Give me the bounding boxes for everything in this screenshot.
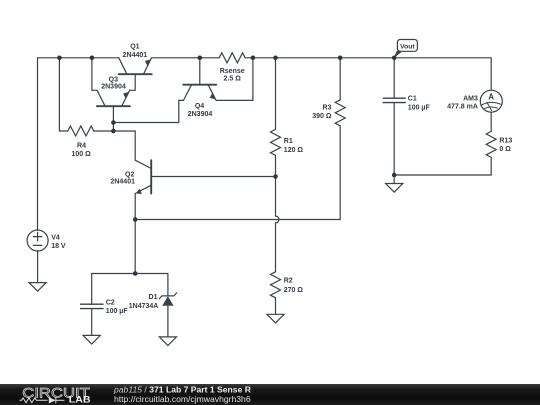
wire Q2 emitter down (134, 194, 136, 274)
svg-text:C2: C2 (106, 299, 115, 306)
svg-text:D1: D1 (149, 294, 158, 301)
ground for C2 (83, 335, 100, 344)
junction Q3 base / R4 right (111, 129, 116, 134)
svg-text:2N3904: 2N3904 (101, 83, 126, 90)
wire left column to V4 (37, 58, 39, 231)
wire Q4 emitter to rail after Rsense (216, 58, 253, 101)
junction Q3 base / Q4 collector (111, 120, 116, 125)
resistor Rsense (219, 53, 245, 63)
svg-text:100 µF: 100 µF (106, 308, 129, 315)
capacitor C2 (81, 274, 103, 336)
svg-text:Rsense: Rsense (220, 68, 245, 75)
resistor R1 (271, 58, 281, 216)
svg-text:R13: R13 (499, 138, 512, 145)
transistor Q1 (119, 58, 152, 91)
ground for R2 (267, 314, 284, 323)
svg-text:100 µF: 100 µF (408, 104, 431, 111)
svg-text:pab115 / 371 Lab 7 Part 1 Sens: pab115 / 371 Lab 7 Part 1 Sense R (113, 384, 252, 394)
capacitor C1 (383, 58, 405, 175)
svg-text:1N4734A: 1N4734A (129, 303, 159, 310)
wire branch to R4 (59, 58, 67, 131)
wire bottom right row (394, 174, 491, 176)
wire top rail left segment (38, 57, 119, 59)
svg-text:C1: C1 (408, 96, 417, 103)
wire C2 D1 row (92, 273, 168, 275)
junction rail / Q3 collector (90, 56, 95, 61)
junction rail / Q4 base (198, 56, 203, 61)
svg-text:18 V: 18 V (51, 243, 66, 250)
svg-text:Q2: Q2 (125, 171, 134, 178)
zener diode D1 (159, 274, 176, 337)
svg-text:LAB: LAB (69, 395, 91, 405)
ground for D1 (159, 337, 176, 346)
svg-text:R1: R1 (284, 138, 293, 145)
wire R4 right to node (94, 131, 135, 160)
junction C1 bottom / ground (392, 173, 397, 178)
resistor R4 (68, 126, 94, 136)
resistor R2 (271, 272, 281, 315)
svg-text:270 Ω: 270 Ω (284, 287, 304, 294)
logo CIRCUIT LAB (20, 385, 91, 404)
transistor Q3 (97, 90, 130, 131)
ammeter AM3 (480, 90, 502, 131)
transistor Q2 (135, 160, 151, 194)
svg-text:2.5 Ω: 2.5 Ω (224, 75, 242, 82)
svg-text:Q1: Q1 (130, 43, 139, 50)
wire hop crossing at Q2 emitter row (276, 216, 279, 223)
junction rail / R3 top (338, 56, 343, 61)
voltage source V4 (27, 230, 48, 283)
svg-text:2N3904: 2N3904 (188, 111, 213, 118)
junction C2 D1 row (133, 271, 138, 276)
svg-text:Vout: Vout (400, 44, 415, 51)
svg-text:Q4: Q4 (195, 103, 204, 110)
junction R1 bottom / Q2 base (273, 174, 278, 179)
svg-text:0 Ω: 0 Ω (499, 146, 511, 153)
svg-text:120 Ω: 120 Ω (284, 147, 304, 154)
svg-text:100 Ω: 100 Ω (71, 151, 91, 158)
ground for C1 node (386, 175, 403, 192)
junction rail / R4 branch (57, 56, 62, 61)
svg-text:R4: R4 (77, 142, 86, 149)
resistor R3 (335, 58, 345, 220)
ground for V4 (29, 283, 46, 292)
junction rail / Q4 emitter return (251, 56, 256, 61)
wire R1 to R2 (275, 223, 277, 272)
wire right column down to ammeter (490, 58, 492, 90)
wire Q3 emitter to Q1 base (130, 89, 136, 91)
transistor Q4 (183, 58, 216, 101)
svg-text:AM3: AM3 (463, 95, 478, 102)
svg-text:A: A (488, 93, 494, 102)
node Vout flag (394, 40, 418, 59)
svg-text:2N4401: 2N4401 (110, 179, 135, 186)
wire Q2 base row (151, 176, 275, 178)
wire Q2 emitter row (135, 219, 340, 221)
wire top rail middle segment (152, 57, 220, 59)
svg-text:V4: V4 (51, 235, 60, 242)
svg-text:2N4401: 2N4401 (123, 52, 148, 59)
svg-text:390 Ω: 390 Ω (312, 113, 332, 120)
svg-text:http://circuitlab.com/cjmwavhg: http://circuitlab.com/cjmwavhgrh3h6 (114, 394, 251, 404)
resistor R13 (486, 131, 496, 175)
junction Q2 emitter row (133, 217, 138, 222)
wire Q4 collector to node (113, 100, 183, 122)
svg-text:R3: R3 (323, 104, 332, 111)
svg-text:Q3: Q3 (109, 76, 118, 83)
footer text (113, 384, 252, 404)
junction rail / C1 top node Vout (392, 56, 397, 61)
svg-text:R2: R2 (284, 278, 293, 285)
svg-text:477.8 mA: 477.8 mA (447, 104, 478, 111)
wire branch to Q3 collector (92, 58, 97, 91)
junction rail / R1 top (273, 56, 278, 61)
wire top rail right segment (245, 57, 491, 59)
